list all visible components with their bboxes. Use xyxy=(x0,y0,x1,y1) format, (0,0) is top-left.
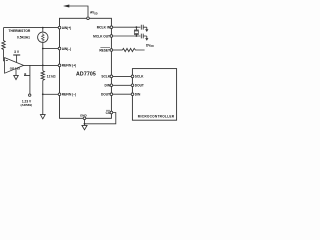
crystal X1 xyxy=(134,27,139,36)
node REFIN(+) tap xyxy=(42,65,44,67)
svg-text:MCLK IN: MCLK IN xyxy=(97,26,111,30)
3V supply bar xyxy=(13,54,20,56)
svg-text:DIN: DIN xyxy=(105,84,111,88)
pin AVDD (top) xyxy=(87,17,90,20)
pin RESET xyxy=(110,49,113,52)
svg-text:CS: CS xyxy=(106,111,110,115)
node junction top rail / thermistor xyxy=(42,27,44,29)
svg-text:DOUT: DOUT xyxy=(135,84,144,88)
pin REFIN(+) xyxy=(58,64,61,67)
wire 12k to ground xyxy=(42,80,44,114)
ground (op-amp) xyxy=(15,70,17,76)
svg-text:DIN: DIN xyxy=(135,93,141,97)
pin DOUT (ADC) xyxy=(110,93,113,96)
wire MCLK IN to crystal/cap xyxy=(113,26,141,28)
wire top rail (5V to AIN+) xyxy=(4,27,59,29)
svg-text:(AD589): (AD589) xyxy=(20,103,32,107)
wire RESET pullup xyxy=(113,49,123,51)
wire AIN(-) xyxy=(43,48,58,50)
wire GND stub xyxy=(84,120,86,126)
node GND/CS junction xyxy=(84,123,86,125)
node 1.23V AD589 terminal xyxy=(29,94,31,96)
svg-text:DVDD: DVDD xyxy=(146,43,154,48)
svg-text:MICROCONTROLLER: MICROCONTROLLER xyxy=(138,114,175,118)
op-amp plus sign xyxy=(24,73,26,75)
svg-text:THERMISTOR: THERMISTOR xyxy=(9,29,31,33)
svg-text:REFIN (+): REFIN (+) xyxy=(62,64,76,68)
node AIN(-) tap xyxy=(42,48,44,50)
wire DOUT-DIN xyxy=(113,93,132,95)
resistor R2 (reset pullup) xyxy=(123,48,145,51)
svg-text:SCLK: SCLK xyxy=(135,75,144,79)
wire REFIN(-) xyxy=(43,93,58,95)
thermistor RT 0.5K3A1 xyxy=(42,28,44,32)
node REFIN(-) tap xyxy=(42,93,44,95)
pin DIN (MCU) xyxy=(131,93,134,96)
pin MCLK OUT xyxy=(110,35,113,38)
pin AIN(-) xyxy=(58,47,61,50)
svg-text:REFIN (–): REFIN (–) xyxy=(62,93,76,97)
svg-text:DOUT: DOUT xyxy=(101,93,110,97)
resistor (bias, left rail) xyxy=(2,28,5,62)
wire +input to 1.23V node xyxy=(24,65,30,93)
ground (GND pin) xyxy=(82,125,87,129)
pin GND xyxy=(83,117,86,120)
svg-text:GND: GND xyxy=(80,114,88,118)
wire DIN-DOUT xyxy=(113,84,132,86)
pin DOUT (MCU) xyxy=(131,84,134,87)
ground (C1) xyxy=(146,27,148,29)
svg-text:3 V: 3 V xyxy=(14,50,20,54)
pin CS xyxy=(110,111,113,114)
pin DIN (ADC) xyxy=(110,84,113,87)
op-amp minus sign xyxy=(6,60,8,62)
svg-text:0.5K3A1: 0.5K3A1 xyxy=(17,36,30,40)
wire thermistor bus down xyxy=(42,43,44,71)
pin REFIN(-) xyxy=(58,93,61,96)
ADC box U1 AD7705 xyxy=(60,18,112,118)
svg-text:AIN(+): AIN(+) xyxy=(62,26,71,30)
svg-text:12 kΩ: 12 kΩ xyxy=(47,75,56,79)
op-amp U2 OP193 xyxy=(5,58,24,74)
ground (C2) xyxy=(146,36,148,38)
microcontroller box xyxy=(132,69,176,121)
wire MCLK OUT to crystal/cap xyxy=(113,35,141,37)
pin SCLK (MCU) xyxy=(131,75,134,78)
pin SCLK (ADC) xyxy=(110,75,113,78)
svg-text:RESET: RESET xyxy=(99,48,110,52)
svg-text:AIN(–): AIN(–) xyxy=(62,47,71,51)
svg-text:MCLK OUT: MCLK OUT xyxy=(93,34,110,38)
resistor R1 12 kOhm xyxy=(41,71,44,81)
wire 5V supply arrow to AVDD xyxy=(65,6,88,18)
pin AIN(+) xyxy=(58,26,61,29)
svg-text:AVDD: AVDD xyxy=(90,11,98,16)
wire CS to ground xyxy=(85,113,116,124)
wire SCLK xyxy=(113,75,132,77)
svg-text:AD7705: AD7705 xyxy=(76,71,96,77)
ground (left bus) xyxy=(40,115,45,119)
pin MCLK IN xyxy=(110,26,113,29)
capacitor C1 xyxy=(141,25,147,30)
capacitor C2 xyxy=(141,34,147,39)
svg-text:OP 193: OP 193 xyxy=(10,66,20,70)
wire op-amp output to REFIN(+) xyxy=(23,64,58,66)
svg-text:SCLK: SCLK xyxy=(101,75,110,79)
